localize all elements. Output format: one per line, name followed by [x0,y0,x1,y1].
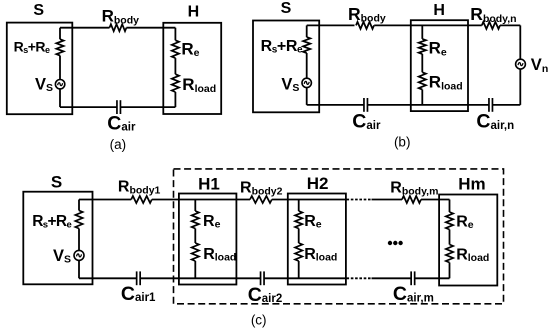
wire bottom (b) [307,104,364,106]
wire top (b) [307,24,355,26]
resistor Rload (b) [419,72,426,89]
svg-text:Re: Re [456,213,474,231]
wire left branch (c) [78,200,80,211]
ellipsis dots (c) [388,241,392,245]
resistor Re Hm (c) [446,212,453,230]
wire top (a) [60,27,110,29]
resistor Rbody,m (c) [402,196,421,203]
resistor Rload H2 (c) [295,243,302,261]
resistor Re H1 (c) [192,211,199,229]
capacitor Cair2 (c) [260,271,262,285]
source VS (a) [55,80,64,89]
wire branch Hm (c) [449,200,451,213]
source Vn (b) [516,59,526,69]
resistor Re (b) [419,39,426,54]
resistor Rload (a) [172,74,179,92]
svg-text:Rload: Rload [182,75,216,95]
svg-text:Vn: Vn [531,56,548,75]
resistor Rs+Re (b) [303,37,310,53]
enclosure S (b) [253,21,319,113]
resistor Rload Hm (c) [446,245,453,263]
svg-text:Cair1: Cair1 [121,283,156,305]
capacitor Cair (a) [116,100,118,114]
svg-text:(a): (a) [110,137,127,152]
dashed boundary (c) [174,169,504,304]
svg-text:Rload: Rload [456,246,489,264]
svg-text:Rload: Rload [429,73,463,93]
svg-text:Re: Re [429,39,447,59]
source VS (c) [74,250,84,260]
resistor Rs+Re (c) [75,211,82,229]
wire bottom (a) [60,106,117,108]
enclosure Hm (c) [439,195,497,286]
enclosure H2 (c) [288,194,346,285]
svg-text:Rs+Re: Rs+Re [14,39,50,56]
source VS (b) [302,78,311,87]
wire right branch (a) [174,28,176,41]
svg-text:Cair2: Cair2 [248,284,283,306]
svg-text:Cair,m: Cair,m [393,283,434,305]
svg-text:Rload: Rload [203,246,236,264]
wire top dotted (c) [347,199,372,201]
svg-text:S: S [33,2,44,19]
resistor Rbody1 (c) [131,196,152,203]
wire bottom dotted (c) [347,277,372,279]
capacitor Cair,n (b) [488,98,490,112]
svg-text:H1: H1 [198,175,220,194]
svg-text:VS: VS [53,247,71,266]
capacitor Cair1 (c) [136,271,138,285]
svg-text:Re: Re [304,213,322,231]
svg-text:Rs+Re: Rs+Re [261,38,303,56]
wire middle branch (b) [421,25,423,39]
enclosure H (a) [163,23,221,114]
wire left branch (b) [306,25,308,37]
svg-text:Re: Re [181,39,199,59]
svg-text:S: S [281,0,292,17]
resistor Rbody (a) [110,24,127,31]
svg-text:Rload: Rload [304,246,337,264]
svg-text:Hm: Hm [458,174,485,193]
enclosure S (c) [23,192,92,285]
capacitor Cair,m (c) [410,271,412,285]
svg-text:(c): (c) [251,312,267,327]
svg-text:S: S [51,173,62,192]
wire right branch (b) [519,25,521,59]
svg-text:VS: VS [281,75,299,94]
enclosure S (a) [7,23,73,115]
wire branch H1 (c) [194,200,196,212]
resistor Rbody,n (b) [482,22,500,29]
resistor Rbody2 (c) [250,196,272,203]
enclosure H1 (c) [179,194,237,285]
resistor Re (a) [172,40,179,58]
svg-text:H: H [188,3,200,20]
svg-text:H: H [433,2,445,19]
svg-text:Re: Re [203,213,221,231]
svg-text:Rbody: Rbody [102,7,140,27]
svg-text:(b): (b) [394,134,411,149]
svg-text:Rbody,m: Rbody,m [390,180,438,198]
resistor Rbody (b) [356,22,374,29]
resistor Rs+Re (a) [56,39,63,55]
wire bottom (c) [79,277,137,279]
resistor Rload H1 (c) [192,243,199,261]
wire left branch (a) [59,28,61,40]
svg-text:VS: VS [35,75,53,94]
svg-text:Cair,n: Cair,n [476,111,514,133]
svg-text:Rbody: Rbody [348,4,386,25]
capacitor Cair (b) [363,98,365,112]
svg-text:Cair: Cair [107,112,136,134]
svg-text:Cair: Cair [352,111,381,133]
svg-text:Rs+Re: Rs+Re [32,213,71,231]
svg-text:H2: H2 [307,174,329,193]
wire top (c) [79,199,131,201]
wire branch H2 (c) [298,200,300,212]
enclosure H (b) [411,20,468,111]
svg-text:Rbody2: Rbody2 [240,180,283,198]
svg-text:Rbody,n: Rbody,n [470,4,516,25]
resistor Re H2 (c) [295,211,302,229]
svg-text:Rbody1: Rbody1 [118,179,161,197]
